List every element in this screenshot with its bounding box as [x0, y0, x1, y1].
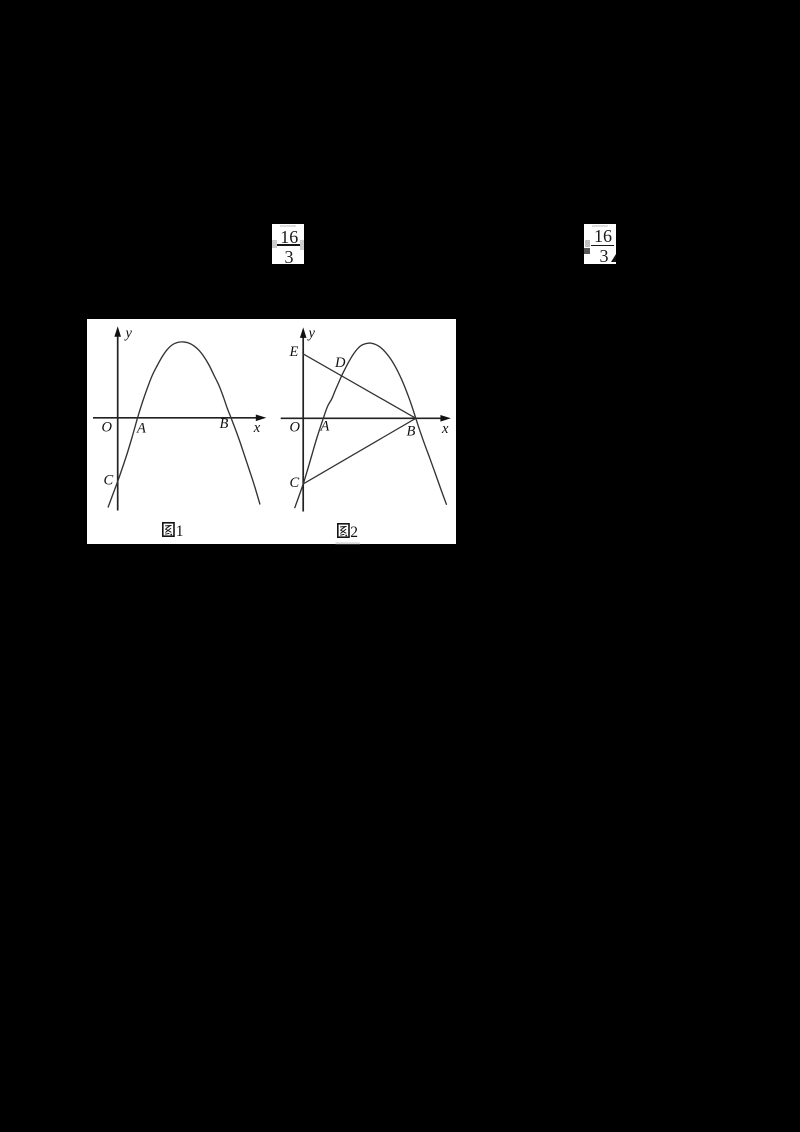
svg-text:A: A: [136, 420, 146, 436]
svg-text:x: x: [441, 421, 449, 437]
svg-text:O: O: [290, 419, 301, 435]
svg-text:C: C: [104, 472, 114, 488]
svg-text:C: C: [290, 475, 300, 491]
svg-text:B: B: [220, 416, 229, 432]
svg-text:O: O: [102, 419, 113, 435]
svg-text:A: A: [320, 418, 330, 434]
svg-text:B: B: [407, 423, 416, 439]
svg-text:x: x: [253, 419, 261, 435]
svg-text:E: E: [289, 343, 299, 359]
svg-text:y: y: [124, 325, 133, 341]
svg-text:2: 2: [350, 524, 358, 541]
svg-text:D: D: [334, 355, 346, 371]
svg-text:1: 1: [176, 523, 184, 540]
svg-text:y: y: [307, 325, 316, 341]
